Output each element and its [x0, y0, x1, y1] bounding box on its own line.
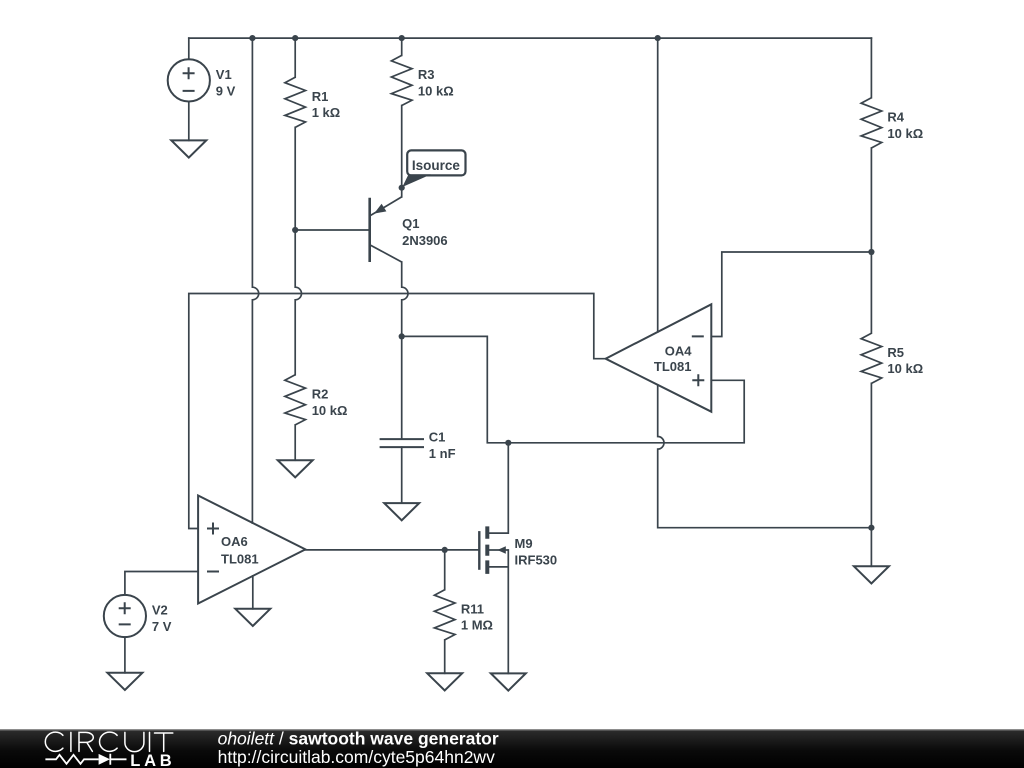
junction rail / OA4 V+ — [655, 35, 661, 41]
transistor M9 — [479, 526, 508, 574]
M9 body arrow — [497, 546, 506, 553]
Isource callout — [402, 150, 465, 187]
svg-text:TL081: TL081 — [654, 359, 692, 374]
svg-text:R5: R5 — [887, 345, 904, 360]
junction rail / R3 — [399, 35, 405, 41]
junction R1-R2 / Q1 base — [292, 227, 298, 233]
wire V1 top stem — [188, 38, 190, 59]
svg-text:7 V: 7 V — [152, 619, 172, 634]
svg-text:C1: C1 — [429, 430, 446, 445]
junction rail / column A — [249, 35, 255, 41]
ground below M9 source — [491, 673, 526, 690]
voltage source V2 — [104, 595, 146, 637]
svg-text:R3: R3 — [418, 67, 435, 82]
wire V2 bottom to ground — [124, 637, 126, 673]
svg-text:V1: V1 — [216, 67, 232, 82]
wire node to R11 top — [444, 550, 446, 590]
svg-text:ohoilett / sawtooth wave gener: ohoilett / sawtooth wave generator — [218, 729, 499, 749]
junction Q1 collector / C1 — [399, 333, 405, 339]
resistor R5 — [861, 333, 882, 383]
wire Q1 base — [295, 229, 370, 231]
wire R3 bottom to Isource node to Q1 emitter — [401, 106, 403, 197]
svg-text:TL081: TL081 — [221, 552, 259, 567]
junction R4 / R5 / OA4 minus feedback — [868, 249, 874, 255]
svg-text:OA6: OA6 — [221, 534, 248, 549]
junction R5 / ground wire — [868, 525, 874, 531]
resistor R1 — [285, 77, 306, 127]
wire column A rail to OA6 V+ pin (hop over output wire) — [252, 38, 258, 523]
svg-text:M9: M9 — [515, 536, 533, 551]
wire OA4 bottom power pin to ground node (hop over plus input wire) — [658, 385, 872, 528]
wire rail to R3 top — [401, 38, 403, 55]
op-amp OA4 — [606, 304, 712, 411]
svg-text:R1: R1 — [312, 89, 329, 104]
svg-text:10 kΩ: 10 kΩ — [887, 126, 923, 141]
svg-text:10 kΩ: 10 kΩ — [312, 403, 348, 418]
ground below V1 — [171, 140, 206, 157]
svg-text:http://circuitlab.com/cyte5p64: http://circuitlab.com/cyte5p64hn2wv — [218, 747, 495, 767]
wire OA4 output to OA6 plus input — [189, 294, 606, 529]
wire OA6 bottom power pin to ground — [252, 576, 254, 609]
svg-text:10 kΩ: 10 kΩ — [887, 361, 923, 376]
wire R2 bottom to ground — [294, 425, 296, 460]
wire R4 bottom to node to R5 top — [870, 148, 872, 333]
wire R5 bottom to ground node — [870, 383, 872, 566]
junction OA6 output / R11 / M9 gate — [442, 547, 448, 553]
resistor R2 — [285, 375, 306, 425]
wire R1 bottom to base node to R2 top (hop over output wire) — [295, 127, 301, 374]
svg-text:1 kΩ: 1 kΩ — [312, 105, 341, 120]
svg-text:Isource: Isource — [412, 158, 461, 173]
wire V2 plus to OA6 minus input — [125, 572, 198, 595]
ground below R5 — [854, 566, 889, 583]
svg-text:IRF530: IRF530 — [515, 553, 558, 568]
resistor R11 — [434, 590, 455, 640]
svg-text:V2: V2 — [152, 603, 168, 618]
ground below C1 — [384, 503, 419, 520]
wire OA4 minus input to feedback node — [711, 252, 871, 337]
svg-text:1 MΩ: 1 MΩ — [461, 618, 493, 633]
wire M9 drain to integrator wire — [488, 443, 508, 533]
wire OA6 output to M9 gate — [305, 549, 479, 551]
resistor R3 — [391, 55, 412, 105]
svg-text:R11: R11 — [461, 602, 484, 617]
svg-text:OA4: OA4 — [665, 344, 693, 359]
wire rail corner to R4 top — [870, 38, 872, 98]
wire C1 bottom to ground — [401, 447, 403, 503]
svg-text:R2: R2 — [312, 387, 329, 402]
svg-text:10 kΩ: 10 kΩ — [418, 83, 454, 98]
wire M9 source to ground — [488, 550, 508, 673]
junction M9 drain / OA4 plus wire — [505, 440, 511, 446]
ground below R11 — [427, 673, 462, 690]
svg-text:LAB: LAB — [130, 752, 175, 768]
voltage source V1 — [168, 59, 210, 101]
wire R11 bottom to ground — [444, 640, 446, 673]
svg-text:9 V: 9 V — [216, 83, 236, 98]
svg-text:2N3906: 2N3906 — [402, 233, 448, 248]
ground below V2 — [107, 673, 142, 690]
capacitor C1 — [380, 439, 424, 447]
Q1 emitter arrow — [374, 204, 386, 214]
junction rail / R1 — [292, 35, 298, 41]
ground below OA6 — [235, 609, 270, 626]
wire rail to OA4 top power pin — [657, 38, 659, 332]
CircuitLab logo wordmark — [45, 732, 175, 768]
wire top supply rail — [189, 37, 872, 39]
svg-text:Q1: Q1 — [402, 216, 419, 231]
op-amp OA6 — [198, 496, 305, 604]
wire Q1 collector down to integrator node (hop over output wire) — [402, 262, 408, 439]
resistor R4 — [861, 98, 882, 148]
ground below R2 — [278, 460, 313, 477]
wire integrator node to OA4 plus input — [402, 336, 745, 442]
svg-text:R4: R4 — [887, 110, 904, 125]
logo resistor-diode doodle — [45, 754, 126, 765]
transistor Q1 — [370, 197, 402, 262]
wire column B rail to R1 top — [294, 38, 296, 77]
node Isource (R3 / Q1 emitter) — [399, 185, 405, 191]
svg-text:1 nF: 1 nF — [429, 446, 456, 461]
wire V1 bottom stem — [188, 102, 190, 141]
